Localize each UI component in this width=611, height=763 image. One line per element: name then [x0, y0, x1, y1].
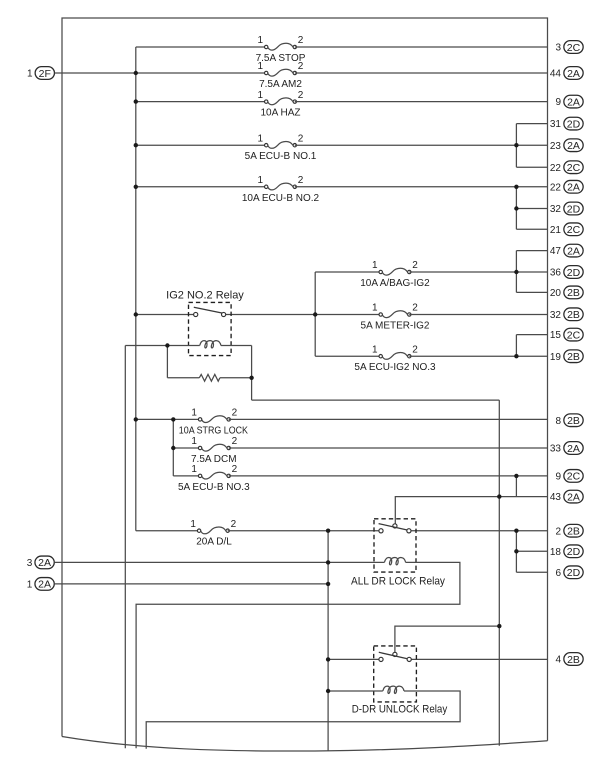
wire fuse row 5A ECU-B NO.3 output to 9 2C	[229, 475, 548, 477]
svg-text:31: 31	[550, 119, 562, 130]
svg-text:33: 33	[550, 444, 562, 455]
svg-text:20A D/L: 20A D/L	[196, 537, 232, 548]
coil D-DR UNLOCK relay	[383, 686, 404, 693]
relay D-DR UNLOCK Relay dashed enclosure	[374, 646, 417, 702]
switch blade ALL DR LOCK relay	[379, 524, 408, 530]
fuse 10A HAZ	[257, 90, 303, 119]
svg-text:2F: 2F	[39, 68, 51, 80]
fuse 5A ECU-IG2 NO.3	[354, 344, 436, 373]
wire 2F feed into AM2 row	[55, 72, 267, 74]
svg-text:2: 2	[298, 133, 304, 144]
wire fuse row 10A STRG LOCK output to 8 2B	[229, 418, 548, 420]
svg-text:9: 9	[555, 472, 561, 483]
svg-text:2: 2	[232, 436, 238, 447]
node 19 2B (connector 2B pin 19)	[550, 350, 583, 363]
svg-text:5A ECU-B NO.1: 5A ECU-B NO.1	[245, 151, 317, 162]
wire fuse row 5A ECU-B NO.3 input	[173, 475, 200, 477]
node 15 2C (connector 2C pin 15)	[550, 328, 583, 341]
svg-text:1: 1	[191, 436, 197, 447]
node 43 2A (connector 2A pin 43)	[550, 490, 583, 503]
wire D-DR UNLOCK coil return	[146, 691, 460, 749]
svg-text:2D: 2D	[567, 203, 581, 215]
svg-text:2B: 2B	[567, 415, 580, 427]
svg-text:2A: 2A	[567, 443, 580, 455]
svg-text:5A METER-IG2: 5A METER-IG2	[361, 321, 430, 332]
wire stub to 21 2C	[516, 228, 547, 230]
wire stub to 18 2D	[516, 550, 547, 552]
wire IG2 relay switch output to METER fuse	[224, 314, 381, 316]
svg-text:2: 2	[232, 408, 238, 419]
wire resistor branch drop (x=167.4)	[166, 346, 168, 378]
svg-text:1: 1	[27, 580, 33, 591]
wire branch bracket 9 2C / 43 2A	[515, 476, 517, 497]
wire branch bracket 47 2A / 20 2B	[515, 251, 517, 293]
coil IG2 relay	[200, 341, 221, 348]
switch contact IG2 relay (right terminal)	[222, 312, 226, 316]
wire IG2 relay switch feed	[136, 314, 196, 316]
fuse 10A STRG LOCK	[179, 408, 248, 437]
node 9 2C (connector 2C pin 9)	[555, 470, 583, 483]
wire fuse row 7.5A DCM output to 33 2A	[229, 447, 548, 449]
svg-text:2: 2	[231, 519, 237, 530]
wire rail from IG2 coil to bottom (x=125.3)	[124, 346, 126, 749]
svg-text:47: 47	[550, 246, 562, 257]
wire fuse row 5A METER-IG2 output to 32 2B	[409, 314, 547, 316]
switch blade IG2 relay	[194, 307, 222, 313]
svg-text:2A: 2A	[567, 96, 580, 108]
wire fuse row 10A A/BAG-IG2 input	[315, 271, 381, 273]
wire ALL DR LOCK common riser	[395, 497, 547, 524]
wire ALL DR LOCK coil return	[136, 562, 460, 748]
node 32 2B (connector 2B pin 32)	[550, 308, 583, 321]
svg-text:2: 2	[298, 90, 304, 101]
svg-text:1: 1	[372, 260, 378, 271]
node 8 2B (connector 2B pin 8)	[555, 414, 583, 427]
wire branch bracket 2 2B / 18 2D / 6 2D	[515, 531, 517, 573]
node 9 2A (connector 2A pin 9)	[555, 95, 583, 108]
wire fuse row 10A HAZ output to 9 2A	[295, 101, 548, 103]
wire fuse row 5A ECU-B NO.1 input	[136, 144, 266, 146]
svg-text:2: 2	[412, 344, 418, 355]
svg-text:D-DR UNLOCK Relay: D-DR UNLOCK Relay	[352, 704, 448, 716]
svg-text:1: 1	[257, 133, 263, 144]
wire fuse row 5A ECU-IG2 NO.3 output to 19 2B	[409, 355, 547, 357]
svg-text:2C: 2C	[567, 471, 581, 483]
fuse 5A ECU-B NO.1	[245, 133, 317, 162]
svg-text:36: 36	[550, 268, 562, 279]
wire IG2 coil feed (left)	[125, 345, 199, 347]
svg-text:2B: 2B	[567, 526, 580, 538]
svg-text:5A ECU-B NO.3: 5A ECU-B NO.3	[178, 482, 250, 493]
wire fuse row 7.5A DCM input	[173, 447, 200, 449]
svg-text:18: 18	[550, 547, 562, 558]
svg-text:2A: 2A	[38, 557, 51, 569]
wire fuse row 20A D/L input	[136, 530, 199, 532]
svg-text:ALL DR LOCK Relay: ALL DR LOCK Relay	[351, 575, 445, 587]
wire resistor left lead	[167, 377, 199, 379]
svg-text:2B: 2B	[567, 287, 580, 299]
relay IG2 NO.2 Relay dashed enclosure	[189, 302, 232, 355]
switch contact IG2 relay (left terminal)	[194, 312, 198, 316]
wire relay output run to rail	[252, 399, 500, 401]
fuse 10A ECU-B NO.2	[242, 175, 320, 204]
svg-text:1: 1	[257, 175, 263, 186]
switch contact D-DR UNLOCK (right terminal)	[407, 657, 411, 661]
svg-text:32: 32	[550, 310, 562, 321]
wire rail relay output to bottom (x=499.3)	[498, 400, 500, 746]
svg-text:2D: 2D	[567, 546, 581, 558]
fuse 5A ECU-B NO.3	[178, 464, 250, 493]
wire stub to 6 2D	[516, 571, 547, 573]
wire fuse row 7.5A STOP input	[136, 46, 266, 48]
svg-text:2C: 2C	[567, 329, 581, 341]
svg-text:6: 6	[555, 568, 561, 579]
switch contact D-DR UNLOCK (common)	[393, 652, 397, 656]
svg-text:1: 1	[257, 61, 263, 72]
svg-text:10A HAZ: 10A HAZ	[260, 108, 300, 119]
svg-text:2A: 2A	[567, 68, 580, 80]
node 32 2D (connector 2D pin 32)	[550, 202, 583, 215]
fuse 5A METER-IG2	[361, 303, 430, 332]
wire fuse row 10A ECU-B NO.2 input	[136, 186, 266, 188]
wire stub to 15 2C	[516, 334, 547, 336]
svg-text:1: 1	[257, 90, 263, 101]
wire 1 2A row to rail	[54, 583, 328, 585]
svg-text:9: 9	[555, 97, 561, 108]
svg-text:20: 20	[550, 288, 562, 299]
svg-text:2: 2	[412, 303, 418, 314]
node 23 2A (connector 2A pin 23)	[550, 139, 583, 152]
svg-text:2A: 2A	[567, 245, 580, 257]
svg-text:10A STRG LOCK: 10A STRG LOCK	[179, 425, 248, 436]
wire ALL DR LOCK switch output to 2 2B	[409, 530, 548, 532]
fuse 7.5A AM2	[257, 61, 303, 90]
svg-text:8: 8	[555, 416, 561, 427]
svg-text:1: 1	[27, 69, 33, 80]
svg-text:10A A/BAG-IG2: 10A A/BAG-IG2	[360, 278, 430, 289]
wire 3 2A row to ALL DR LOCK coil	[54, 561, 384, 563]
svg-text:2B: 2B	[567, 654, 580, 666]
svg-text:2: 2	[298, 61, 304, 72]
svg-text:2: 2	[298, 175, 304, 186]
node 47 2A (connector 2A pin 47)	[550, 244, 583, 257]
node 6 2D (connector 2D pin 6)	[555, 566, 583, 579]
svg-text:1: 1	[372, 303, 378, 314]
svg-text:2B: 2B	[567, 309, 580, 321]
coil ALL DR LOCK relay	[384, 557, 405, 564]
wire fuse row 10A A/BAG-IG2 output to 36 2D	[409, 271, 547, 273]
svg-text:1: 1	[190, 519, 196, 530]
node 3 2C (connector 2C pin 3)	[555, 41, 583, 54]
wire main bus from 2F junction (x=135.8)	[135, 47, 137, 531]
switch contact D-DR UNLOCK (left terminal)	[379, 657, 383, 661]
wire fuse row 5A ECU-IG2 NO.3 input	[315, 355, 381, 357]
svg-text:2: 2	[555, 526, 561, 537]
wire sub-bus feeding DCM and ECU-B NO.3 (x=173.3)	[172, 419, 174, 476]
node 33 2A (connector 2A pin 33)	[550, 442, 583, 455]
relay ALL DR LOCK Relay dashed enclosure	[374, 519, 416, 572]
node 18 2D (connector 2D pin 18)	[550, 545, 583, 558]
svg-text:2: 2	[232, 464, 238, 475]
svg-text:2A: 2A	[38, 579, 51, 591]
svg-text:10A ECU-B NO.2: 10A ECU-B NO.2	[242, 193, 320, 204]
node 20 2B (connector 2B pin 20)	[550, 286, 583, 299]
svg-text:2D: 2D	[567, 118, 581, 130]
svg-text:2A: 2A	[567, 140, 580, 152]
switch blade D-DR UNLOCK relay	[379, 652, 408, 658]
resistor IG2 relay shunt	[199, 374, 220, 381]
wire rail lock-relay feed (x=328.1)	[327, 531, 329, 751]
svg-text:3: 3	[27, 558, 33, 569]
svg-text:21: 21	[550, 225, 562, 236]
svg-text:2C: 2C	[567, 42, 581, 54]
svg-text:2D: 2D	[567, 267, 581, 279]
wire stub to 31 2D	[516, 123, 547, 125]
wire stub to 22 2C	[516, 166, 547, 168]
switch contact ALL DR LOCK (common)	[393, 524, 397, 528]
svg-text:2: 2	[412, 260, 418, 271]
wire fuse row 7.5A AM2 output to 44 2A	[295, 72, 548, 74]
node 2 2B (connector 2B pin 2)	[555, 524, 583, 537]
wire D-DR UNLOCK common run	[395, 626, 499, 652]
svg-text:1: 1	[372, 344, 378, 355]
node 4 2B (connector 2B pin 4)	[555, 653, 583, 666]
switch contact ALL DR LOCK (right terminal)	[407, 529, 411, 533]
fuse 7.5A DCM	[191, 436, 238, 465]
svg-text:44: 44	[550, 69, 562, 80]
node 36 2D (connector 2D pin 36)	[550, 266, 583, 279]
node 44 2A (connector 2A pin 44)	[550, 67, 583, 80]
svg-text:2C: 2C	[567, 224, 581, 236]
node 1 2A (connector 2A pin 1)	[27, 578, 55, 591]
wire branch bracket 32 2D / 21 2C	[515, 187, 517, 230]
wire IG2 coil to right branch	[221, 345, 252, 347]
switch contact ALL DR LOCK (left terminal)	[379, 529, 383, 533]
node 31 2D (connector 2D pin 31)	[550, 117, 583, 130]
svg-text:7.5A AM2: 7.5A AM2	[259, 79, 302, 90]
node 3 2A (connector 2A pin 3)	[27, 556, 55, 569]
junction block torn bottom edge	[62, 737, 548, 752]
wire fuse row 20A D/L output to ALL DR LOCK switch	[228, 530, 381, 532]
wire branch bracket 31 2D / 22 2C	[515, 124, 517, 168]
svg-text:1: 1	[257, 35, 263, 46]
svg-text:15: 15	[550, 330, 562, 341]
wire D-DR UNLOCK switch feed	[328, 658, 381, 660]
svg-text:23: 23	[550, 141, 562, 152]
wire fuse row 5A ECU-B NO.1 output to 23 2A	[295, 144, 548, 146]
svg-text:3: 3	[555, 43, 561, 54]
svg-text:22: 22	[550, 182, 562, 193]
svg-text:5A ECU-IG2 NO.3: 5A ECU-IG2 NO.3	[354, 362, 436, 373]
wire branch bracket 15 2C / 19 2B	[515, 335, 517, 357]
svg-text:2: 2	[298, 35, 304, 46]
wire fuse row 10A ECU-B NO.2 output to 22 2A	[295, 186, 548, 188]
node 22 2A (connector 2A pin 22)	[550, 180, 583, 193]
svg-text:43: 43	[550, 492, 562, 503]
node 1 2F (connector 2F pin 1)	[27, 67, 55, 80]
svg-text:32: 32	[550, 204, 562, 215]
wire fuse row 7.5A STOP output to 3 2C	[295, 46, 548, 48]
wire D-DR UNLOCK switch output to 4 2B	[409, 658, 547, 660]
fuse 10A A/BAG-IG2	[360, 260, 430, 289]
svg-text:2B: 2B	[567, 351, 580, 363]
svg-text:1: 1	[191, 464, 197, 475]
node 22 2C (connector 2C pin 22)	[550, 161, 583, 174]
svg-text:4: 4	[555, 655, 561, 666]
wire stub to 32 2D	[516, 208, 547, 210]
svg-text:2D: 2D	[567, 567, 581, 579]
wire stub to 47 2A	[516, 250, 547, 252]
junction block outline	[62, 18, 548, 741]
wire IG2 fuse bus (x=315.2)	[314, 272, 316, 356]
svg-text:IG2 NO.2 Relay: IG2 NO.2 Relay	[166, 290, 244, 302]
wire fuse row 10A STRG LOCK input	[136, 418, 200, 420]
svg-text:19: 19	[550, 352, 562, 363]
fuse 20A D/L	[190, 519, 236, 548]
svg-text:2A: 2A	[567, 182, 580, 194]
svg-text:22: 22	[550, 163, 562, 174]
svg-text:2A: 2A	[567, 491, 580, 503]
svg-text:7.5A DCM: 7.5A DCM	[191, 454, 237, 465]
wire stub to 20 2B	[516, 291, 547, 293]
svg-text:1: 1	[191, 408, 197, 419]
node 21 2C (connector 2C pin 21)	[550, 223, 583, 236]
wire fuse row 10A HAZ input	[136, 101, 266, 103]
wire resistor right lead	[220, 377, 252, 379]
wire relay output drop (x=251.6)	[251, 346, 253, 401]
svg-text:2C: 2C	[567, 162, 581, 174]
fuse 7.5A STOP	[256, 35, 306, 64]
wire D-DR UNLOCK coil feed	[328, 690, 383, 692]
